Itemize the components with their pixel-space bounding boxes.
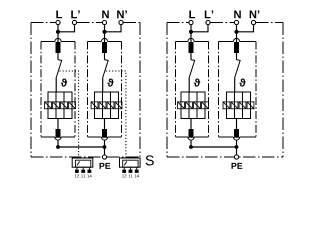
varistor element RV4 (N, box with diagonal) xyxy=(247,102,254,109)
temperature symbol ϑ (thermal trip, N) xyxy=(239,78,245,86)
wire (pin to thermal disconnector, L) xyxy=(190,53,192,60)
signalling contact lead + terminal 14 (L path) xyxy=(88,167,92,173)
remote signalling changeover contact block (N path) xyxy=(120,158,141,167)
plug-in module enclosure top/bottom edges (L path) xyxy=(176,42,209,138)
varistor element RV1 (L, box with diagonal) xyxy=(45,102,52,109)
varistor element RV2 (N, box with diagonal) xyxy=(231,102,238,109)
plug-in module enclosure top/bottom edges (L path) xyxy=(41,42,75,138)
varistor element RV1 (N, box with diagonal) xyxy=(91,102,98,109)
varistor stack outline (L) xyxy=(48,92,72,119)
wire (bottom pin to PE bus, N) xyxy=(104,140,106,147)
wire (disconnector to varistor block, L) xyxy=(188,78,190,92)
terminal label L’ xyxy=(205,10,213,18)
terminal label N’ xyxy=(250,10,260,18)
mechanical link (dotted) from L-path disconnector to signalling contact xyxy=(59,71,78,158)
plug contact pin (top, L module, filled) xyxy=(56,42,61,53)
varistor element RV3 (L, box with diagonal) xyxy=(194,102,201,109)
signalling contact lead + terminal 12 (N path) xyxy=(122,167,126,173)
signalling contact lead + terminal 11 (N path) xyxy=(129,167,133,173)
terminal label PE xyxy=(100,163,111,169)
terminal L (open circle on enclosure boundary) xyxy=(56,20,60,24)
varistor stack column wires (N) xyxy=(103,92,111,119)
wire (terminal N&#8217; elbow to junction) xyxy=(237,25,254,32)
junction node L (solder dot) xyxy=(56,30,60,34)
terminal N’ (open circle on enclosure boundary) xyxy=(119,20,123,24)
plug contact pin (bottom, N module, filled) xyxy=(102,129,107,138)
outer device enclosure (dash-dot boundary) xyxy=(167,23,283,158)
terminal label N xyxy=(102,10,109,18)
varistor element RV2 (L, box with diagonal) xyxy=(186,102,193,109)
plug contact socket arc (bottom, L module) xyxy=(188,137,194,140)
pin number 11 (N path) xyxy=(128,174,132,177)
varistor stack outline (L) xyxy=(181,92,205,119)
varistor element RV3 (N, box with diagonal) xyxy=(239,102,246,109)
terminal label L xyxy=(189,10,195,18)
junction node (N path on PE bus) xyxy=(103,145,107,149)
PE bus wire xyxy=(58,146,105,148)
plug-in module enclosure sides (N path, dash-dot boundary) xyxy=(219,42,257,138)
wire (junction L to module plug) xyxy=(57,32,59,43)
wire (junction N to module plug) xyxy=(236,32,238,43)
signalling contact lead + terminal 12 (L path) xyxy=(75,167,79,173)
terminal label L xyxy=(56,10,62,18)
plug-in module enclosure sides (L path, dash-dot boundary) xyxy=(176,42,209,138)
terminal N’ (open circle on enclosure boundary) xyxy=(251,20,255,24)
varistor element RV3 (N, box with diagonal) xyxy=(107,102,114,109)
wire (pin to thermal disconnector, N) xyxy=(104,53,106,60)
varistor element RV4 (N, box with diagonal) xyxy=(115,102,122,109)
wire (disconnector to varistor block, N) xyxy=(102,78,104,92)
wire (pin to thermal disconnector, L) xyxy=(57,53,59,60)
remote signalling changeover contact block (L path) xyxy=(72,158,93,167)
varistor stack outline (N) xyxy=(227,92,251,119)
temperature symbol ϑ (thermal trip, N) xyxy=(107,78,113,86)
wire (varistor block to bottom pin, L) xyxy=(57,119,59,130)
wire (disconnector to varistor block, L) xyxy=(55,78,57,92)
terminal L’ (open circle on enclosure boundary) xyxy=(206,20,210,24)
varistor element RV3 (L, box with diagonal) xyxy=(61,102,68,109)
terminal label PE xyxy=(232,163,243,169)
wire (varistor block to bottom pin, N) xyxy=(104,119,106,130)
wire (pin to thermal disconnector, N) xyxy=(236,53,238,60)
thermal disconnector switch blade (N) xyxy=(235,60,241,78)
junction node (L path on PE bus) xyxy=(56,145,60,149)
plug-in module enclosure sides (L path, dash-dot boundary) xyxy=(41,42,75,138)
wire (junction N to module plug) xyxy=(104,32,106,43)
plug contact socket arc (top, N module) xyxy=(101,38,107,41)
varistor element RV2 (L, box with diagonal) xyxy=(53,102,60,109)
terminal L (open circle on enclosure boundary) xyxy=(189,20,193,24)
junction node N (solder dot) xyxy=(102,30,106,34)
pin number 12 (N path) xyxy=(122,174,126,177)
wire (PE bus down to PE terminal) xyxy=(104,147,106,155)
plug contact pin (top, N module, filled) xyxy=(102,42,107,53)
junction node (L path on PE bus) xyxy=(189,145,193,149)
varistor element RV4 (L, box with diagonal) xyxy=(69,102,76,109)
plug contact pin (bottom, N module, filled) xyxy=(234,129,239,138)
wire (PE bus down to PE terminal) xyxy=(236,147,238,155)
plug contact socket arc (bottom, N module) xyxy=(101,137,107,140)
terminal PE (open circle on bottom enclosure boundary) xyxy=(234,155,238,159)
wire (terminal L down to junction) xyxy=(190,25,192,32)
varistor element RV1 (L, box with diagonal) xyxy=(178,102,185,109)
wire (disconnector to varistor block, N) xyxy=(234,78,236,92)
varistor stack column wires (N) xyxy=(235,92,243,119)
plug contact socket arc (bottom, N module) xyxy=(233,137,239,140)
terminal PE (open circle on bottom enclosure boundary) xyxy=(102,155,106,159)
varistor stack column wires (L) xyxy=(189,92,197,119)
terminal label L’ xyxy=(71,10,79,18)
plug contact socket arc (top, L module) xyxy=(188,38,194,41)
temperature symbol ϑ (thermal trip, L) xyxy=(194,78,200,86)
terminal L’ (open circle on enclosure boundary) xyxy=(72,20,76,24)
wire (terminal L down to junction) xyxy=(57,25,59,32)
wire (terminal L&#8217; elbow to junction) xyxy=(58,25,75,32)
mechanical link (dotted) from N-path disconnector to signalling contact xyxy=(106,71,126,158)
terminal N (open circle on enclosure boundary) xyxy=(102,20,106,24)
wire (terminal N down to junction) xyxy=(104,25,106,32)
outer device enclosure (dash-dot boundary) xyxy=(31,23,140,158)
label S (remote signalling contact) xyxy=(146,155,154,165)
plug-in module enclosure top/bottom edges (N path) xyxy=(219,42,257,138)
wire (bottom pin to PE bus, N) xyxy=(236,140,238,147)
PE bus wire xyxy=(191,146,237,148)
terminal label N’ xyxy=(117,10,127,18)
plug contact pin (top, L module, filled) xyxy=(189,42,194,53)
terminal N (open circle on enclosure boundary) xyxy=(234,20,238,24)
wire (terminal N down to junction) xyxy=(236,25,238,32)
terminal label N xyxy=(234,10,241,18)
plug contact pin (top, N module, filled) xyxy=(234,42,239,53)
plug-in module enclosure sides (N path, dash-dot boundary) xyxy=(88,42,122,138)
pin number 11 (L path) xyxy=(81,174,85,177)
wire (terminal L&#8217; elbow to junction) xyxy=(191,25,208,32)
junction node N (solder dot) xyxy=(234,30,238,34)
wire (junction L to module plug) xyxy=(190,32,192,43)
pin number 12 (L path) xyxy=(75,174,79,177)
varistor element RV1 (N, box with diagonal) xyxy=(223,102,230,109)
plug contact socket arc (bottom, L module) xyxy=(55,137,61,140)
thermal disconnector switch blade (N) xyxy=(103,60,109,78)
thermal disconnector switch blade (L) xyxy=(56,60,62,78)
signalling contact lead + terminal 14 (N path) xyxy=(135,167,139,173)
wire (bottom pin to PE bus, L) xyxy=(57,140,59,147)
varistor element RV2 (N, box with diagonal) xyxy=(99,102,106,109)
plug-in module enclosure top/bottom edges (N path) xyxy=(88,42,122,138)
wire (varistor block to bottom pin, N) xyxy=(236,119,238,130)
varistor stack column wires (L) xyxy=(56,92,64,119)
thermal disconnector switch blade (L) xyxy=(189,60,195,78)
plug contact pin (bottom, L module, filled) xyxy=(189,129,194,138)
varistor element RV4 (L, box with diagonal) xyxy=(202,102,209,109)
pin number 14 (L path) xyxy=(87,174,91,177)
plug contact socket arc (top, N module) xyxy=(233,38,239,41)
wire (terminal N&#8217; elbow to junction) xyxy=(105,25,122,32)
signalling contact lead + terminal 11 (L path) xyxy=(81,167,85,173)
junction node L (solder dot) xyxy=(189,30,193,34)
wire (bottom pin to PE bus, L) xyxy=(190,140,192,147)
plug contact pin (bottom, L module, filled) xyxy=(56,129,61,138)
temperature symbol ϑ (thermal trip, L) xyxy=(61,78,67,86)
wire (varistor block to bottom pin, L) xyxy=(190,119,192,130)
junction node (N path on PE bus) xyxy=(235,145,239,149)
pin number 14 (N path) xyxy=(135,174,139,177)
varistor stack outline (N) xyxy=(95,92,119,119)
plug contact socket arc (top, L module) xyxy=(55,38,61,41)
